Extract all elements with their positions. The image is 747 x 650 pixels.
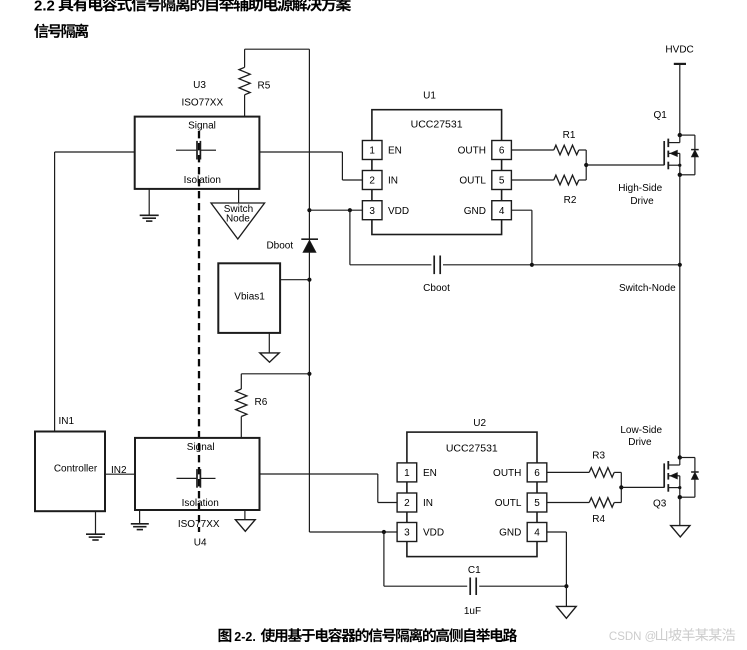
Q3 gate bar xyxy=(663,463,665,487)
node Switch Node symbol xyxy=(238,189,240,203)
ground U4 left xyxy=(139,510,141,523)
Q3 source bar lead xyxy=(668,487,680,489)
svg-text:OUTL: OUTL xyxy=(495,498,522,509)
Q1 source line xyxy=(679,153,681,174)
wire VDD rail to U1 pin 3 xyxy=(309,209,362,211)
svg-text:3: 3 xyxy=(369,206,375,217)
svg-text:IN1: IN1 xyxy=(59,416,75,427)
source Vbias1 box xyxy=(218,263,280,333)
U2 pin 4 box xyxy=(527,523,547,542)
wire gate drive to Q1 xyxy=(586,164,664,166)
Q1 drain lead xyxy=(679,135,681,143)
Q3 source line xyxy=(679,476,681,497)
capacitor symbol inside U3 xyxy=(176,149,196,151)
diode Dboot xyxy=(301,238,318,240)
svg-text:1: 1 xyxy=(369,146,375,157)
Q1 body diode xyxy=(691,149,699,151)
wire U4 output to U2 IN xyxy=(260,473,378,475)
svg-text:1: 1 xyxy=(404,468,410,479)
svg-text:VDD: VDD xyxy=(388,206,409,217)
svg-text:Low-Side: Low-Side xyxy=(620,425,662,436)
U1 pin 6 box xyxy=(492,141,512,160)
Q3 channel bar segments xyxy=(667,461,669,470)
ground C1 xyxy=(565,586,567,606)
Q1 source arrow xyxy=(668,152,680,154)
U1 pin 1 box xyxy=(362,141,382,160)
svg-text:5: 5 xyxy=(499,176,505,187)
wire U2 OUTH to R3 xyxy=(547,471,589,473)
isolator U4 box xyxy=(135,438,260,510)
node Cboot branch junction xyxy=(348,208,352,212)
svg-text:GND: GND xyxy=(464,206,486,217)
svg-text:Q1: Q1 xyxy=(654,110,668,121)
svg-text:R5: R5 xyxy=(258,81,271,92)
resistor R6 xyxy=(236,389,247,417)
svg-text:Controller: Controller xyxy=(54,464,98,475)
svg-text:Dboot: Dboot xyxy=(266,241,293,252)
svg-text:2: 2 xyxy=(369,176,375,187)
Q1 channel bar segments xyxy=(667,139,669,148)
ground U3 xyxy=(148,189,150,215)
U2 pin 2 box xyxy=(397,493,417,512)
svg-text:U3: U3 xyxy=(193,80,206,91)
Q3 source arrow xyxy=(668,475,680,477)
svg-text:HVDC: HVDC xyxy=(665,45,693,56)
ground U4 right triangle xyxy=(244,510,246,520)
svg-text:CSDN @: CSDN @ xyxy=(609,631,656,643)
resistor R2 xyxy=(554,175,579,185)
wire U1 GND to Cboot net xyxy=(511,209,532,211)
resistor R5 xyxy=(244,49,246,67)
svg-text:U1: U1 xyxy=(423,91,436,102)
U1 pin 4 box xyxy=(492,201,512,220)
capacitor symbol inside U4 xyxy=(177,477,197,479)
wire U1 OUTL to R2 xyxy=(511,179,553,181)
wire U2 OUTL to R4 xyxy=(547,502,589,504)
wire main bootstrap vertical line xyxy=(308,49,310,239)
svg-text:4: 4 xyxy=(534,528,540,539)
svg-text:Signal: Signal xyxy=(188,121,216,132)
caption figure 2-2 xyxy=(219,629,232,642)
node R1 R2 junction xyxy=(584,163,588,167)
svg-text:R3: R3 xyxy=(592,450,605,461)
wire controller IN2 to U4 xyxy=(105,473,135,475)
Q1 drain junction dot xyxy=(678,133,682,137)
U2 pin 3 box xyxy=(397,523,417,542)
resistor R1 xyxy=(554,145,579,155)
svg-text:UCC27531: UCC27531 xyxy=(446,442,498,454)
svg-text:3: 3 xyxy=(404,528,410,539)
subtitle 信号隔离 xyxy=(34,24,88,38)
ground Q3 xyxy=(679,497,681,525)
svg-text:C1: C1 xyxy=(468,565,481,576)
wire HVDC to Q1 drain xyxy=(679,64,681,135)
svg-text:Isolation: Isolation xyxy=(184,175,221,186)
node VDD U1 junction xyxy=(307,208,311,212)
node switch-node Cboot junction xyxy=(678,263,682,267)
Q3 source junction dot xyxy=(678,495,682,499)
svg-text:GND: GND xyxy=(499,528,521,539)
wire U1 OUTH to R1 xyxy=(511,149,553,151)
svg-text:U2: U2 xyxy=(473,418,486,429)
wire U3 output to U1 IN xyxy=(259,151,342,153)
U2 pin 1 box xyxy=(397,463,417,482)
Q3 drain junction dot xyxy=(678,455,682,459)
svg-text:OUTH: OUTH xyxy=(493,468,521,479)
wire Vbias1 to bootstrap line xyxy=(280,279,309,281)
wire Q1 source to switch node xyxy=(679,175,681,458)
svg-text:VDD: VDD xyxy=(423,528,444,539)
U1 pin 2 box xyxy=(362,171,382,190)
Q1 source bar lead xyxy=(668,164,680,166)
Q3 drain lead xyxy=(679,458,681,466)
svg-text:2: 2 xyxy=(404,498,410,509)
svg-text:Vbias1: Vbias1 xyxy=(234,292,265,303)
ground controller xyxy=(95,511,97,533)
svg-text:UCC27531: UCC27531 xyxy=(411,119,463,131)
resistor R3 xyxy=(589,468,614,478)
svg-text:R4: R4 xyxy=(592,514,605,525)
U1 pin 3 box xyxy=(362,201,382,220)
svg-text:2.2: 2.2 xyxy=(34,0,55,14)
Q1 body diode branch xyxy=(680,134,695,136)
capacitor Cboot xyxy=(350,264,432,266)
wire U3 input to controller IN1 xyxy=(55,151,135,153)
svg-text:6: 6 xyxy=(499,146,505,157)
svg-text:EN: EN xyxy=(423,468,437,479)
svg-text:Drive: Drive xyxy=(630,196,654,207)
svg-text:OUTH: OUTH xyxy=(458,146,486,157)
svg-text:Signal: Signal xyxy=(187,442,215,453)
svg-text:ISO77XX: ISO77XX xyxy=(181,98,223,109)
svg-text:IN: IN xyxy=(388,176,398,187)
Q1 source junction dot xyxy=(678,173,682,177)
Q3 body diode branch xyxy=(680,457,695,459)
svg-text:EN: EN xyxy=(388,146,402,157)
svg-text:U4: U4 xyxy=(194,537,207,548)
svg-text:IN: IN xyxy=(423,498,433,509)
svg-text:ISO77XX: ISO77XX xyxy=(178,519,220,530)
controller box xyxy=(35,432,105,512)
svg-text:4: 4 xyxy=(499,206,505,217)
svg-text:5: 5 xyxy=(534,498,540,509)
svg-text:Q3: Q3 xyxy=(653,499,667,510)
wire gate drive to Q3 xyxy=(621,486,664,488)
wire bootstrap line to R6 xyxy=(241,373,309,375)
svg-text:Drive: Drive xyxy=(628,437,652,448)
svg-text:Node: Node xyxy=(226,214,250,225)
node R6 junction xyxy=(307,372,311,376)
svg-text:Cboot: Cboot xyxy=(423,283,450,294)
isolator U3 box xyxy=(135,117,260,189)
wire top R5 to VDD rail xyxy=(245,48,310,50)
ground Vbias1 xyxy=(268,333,270,353)
svg-text:High-Side: High-Side xyxy=(618,183,662,194)
node R3 R4 junction xyxy=(619,485,623,489)
U1 pin 5 box xyxy=(492,171,512,190)
node C1 GND junction xyxy=(564,584,568,588)
svg-text:R1: R1 xyxy=(563,130,576,141)
svg-text:R6: R6 xyxy=(255,397,268,408)
svg-text:Switch-Node: Switch-Node xyxy=(619,283,676,294)
svg-text:6: 6 xyxy=(534,468,540,479)
resistor R4 xyxy=(589,498,614,508)
svg-text:Isolation: Isolation xyxy=(182,498,219,509)
Q3 body diode xyxy=(691,471,699,473)
wire U2 GND to C1 net xyxy=(547,531,567,533)
svg-text:OUTL: OUTL xyxy=(459,176,486,187)
Q1 gate bar xyxy=(663,141,665,165)
svg-text:1uF: 1uF xyxy=(464,606,481,617)
isolation barrier dashed line xyxy=(198,131,200,532)
U2 pin 5 box xyxy=(527,493,547,512)
wire Cboot to switch node xyxy=(532,264,680,266)
capacitor C1 xyxy=(384,585,467,587)
node U2 VDD junction C1 xyxy=(382,530,386,534)
svg-text:R2: R2 xyxy=(564,195,577,206)
node Cboot GND junction xyxy=(530,263,534,267)
node Vbias1 junction xyxy=(307,278,311,282)
svg-text:IN2: IN2 xyxy=(111,465,127,476)
svg-text:2-2.: 2-2. xyxy=(234,630,256,644)
U2 pin 6 box xyxy=(527,463,547,482)
